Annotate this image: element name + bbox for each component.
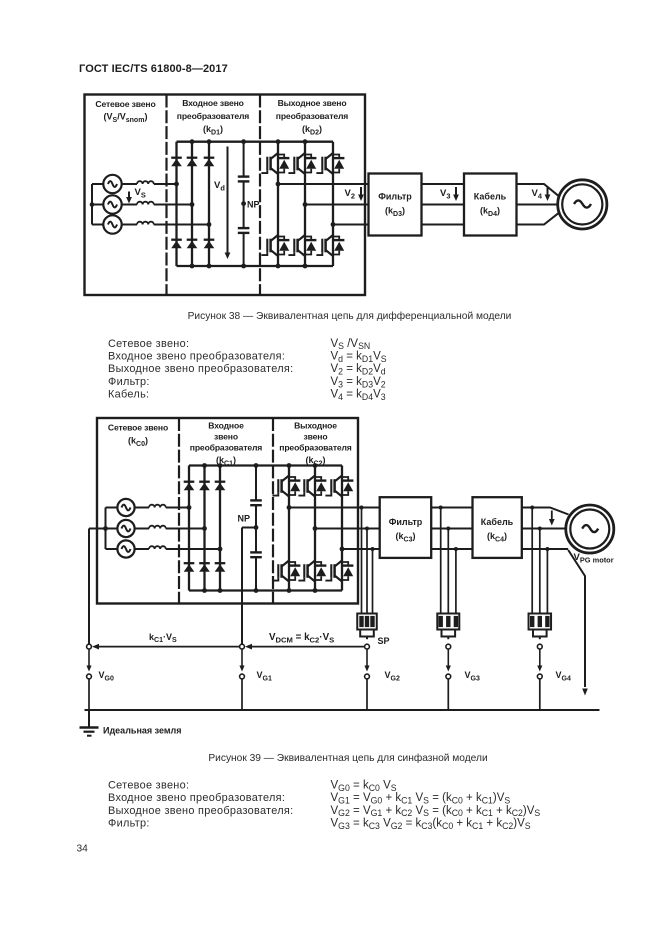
node upper terminal at V_G1 [240, 644, 245, 649]
legend fig38 row: Кабель: [108, 389, 386, 402]
svg-text:Vd = kD1VS: Vd = kD1VS [331, 351, 387, 364]
wire phase 2 cable to motor fig38 [517, 204, 559, 206]
wire phase 1 cable to motor fig39 [522, 508, 569, 515]
svg-text:NP: NP [238, 514, 251, 524]
svg-text:SP: SP [378, 636, 390, 646]
svg-text:преобразователя: преобразователя [276, 111, 349, 121]
wire output phase 2 inverter to filter fig39 [315, 528, 380, 530]
svg-text:Выходное звено преобразователя: Выходное звено преобразователя: [108, 805, 293, 817]
wire phase 3 filter to cable fig38 [422, 224, 465, 226]
node lower terminal at V_G1 [240, 674, 245, 679]
svg-text:(kC4): (kC4) [487, 531, 507, 543]
svg-text:VG0 = kC0 VS: VG0 = kC0 VS [331, 779, 397, 792]
legend fig39 row: Входное звено преобразователя: [108, 792, 510, 805]
wire phase 3 cable to motor fig39 [522, 548, 568, 550]
svg-text:Входное звено преобразователя:: Входное звено преобразователя: [108, 792, 285, 804]
wire V_G1 node to earth rail [241, 679, 243, 710]
svg-text:Кабель:: Кабель: [108, 389, 149, 401]
svg-text:Входное звено преобразователя:: Входное звено преобразователя: [108, 351, 285, 363]
label V_G2 [385, 670, 400, 682]
stray capacitance block filter output [437, 614, 459, 640]
inductor phase 1 fig38 [137, 181, 154, 184]
label V_G3 [465, 670, 480, 682]
figure 39 dashed separator mains/input section [178, 418, 180, 604]
svg-text:ГОСТ IEC/TS 61800-8—2017: ГОСТ IEC/TS 61800-8—2017 [79, 63, 228, 75]
IGBT lower leg 3 fig38 [316, 235, 344, 256]
label V_G0 [99, 670, 114, 682]
legend fig38 row: Выходное звено преобразователя: [108, 363, 386, 376]
voltage arrow V_2 fig38 [345, 187, 364, 201]
inverter leg 2 wire fig38 [304, 142, 306, 266]
inductor phase 3 fig39 [149, 546, 166, 549]
svg-text:Входное: Входное [208, 421, 244, 431]
wire dc-link capacitor branch fig38 [243, 142, 245, 266]
node upper terminal at V_G3 [446, 644, 451, 649]
label input converter section header (k_D1) [177, 98, 250, 136]
legend fig39 row: Выходное звено преобразователя: [108, 805, 540, 818]
svg-text:Фильтр: Фильтр [389, 517, 423, 527]
ideal earth rail fig39 [85, 709, 600, 711]
rectifier leg 2 wire fig38 [191, 142, 193, 266]
diode lower leg 2 fig39 [199, 563, 210, 572]
svg-text:34: 34 [77, 844, 89, 855]
label node SP [378, 636, 390, 646]
svg-text:Выходное звено преобразователя: Выходное звено преобразователя: [108, 363, 293, 375]
node lower terminal at V_G4 [537, 674, 542, 679]
wire phase 2 source to rectifier fig38 [121, 204, 192, 206]
voltage arrow V_G4 [537, 650, 542, 672]
filter block (k_D3) fig38 [369, 174, 422, 236]
svg-text:преобразователя: преобразователя [190, 443, 263, 453]
voltage arrow V_DCM = k_C2*V_S between ground nodes [245, 632, 365, 650]
diode upper leg 2 fig38 [187, 158, 198, 167]
voltage arrow V_G0 [86, 650, 91, 672]
svg-text:Фильтр:: Фильтр: [108, 376, 150, 388]
wire stray-capacitance bundle cable output [530, 506, 549, 614]
dc bus positive fig39 [189, 464, 342, 466]
ac source G2 fig38 [103, 195, 121, 213]
voltage arrow V_4 fig38 [532, 187, 551, 201]
ac source G2 fig39 [117, 520, 134, 537]
motor M fig38 [558, 180, 607, 229]
label mains section header (V_S/V_snom) [95, 99, 155, 124]
cable block (k_D4) fig38 [464, 174, 517, 236]
svg-text:(kD1): (kD1) [203, 124, 223, 136]
voltage arrow V_G2 [364, 650, 369, 672]
voltage arrow V_G3 [446, 650, 451, 672]
wire V_G0 node to earth rail [88, 679, 90, 710]
diode upper leg 3 fig39 [215, 482, 226, 491]
stray capacitance block cable output [529, 614, 552, 640]
diode upper leg 3 fig38 [204, 158, 215, 167]
wire phase 3 source to rectifier fig38 [121, 224, 209, 226]
svg-text:Сетевое звено: Сетевое звено [95, 99, 155, 109]
legend fig38 row: Фильтр: [108, 376, 386, 389]
wire output phase 3 inverter to filter fig38 [333, 224, 369, 226]
svg-text:VS /VSN: VS /VSN [331, 338, 371, 351]
IGBT upper leg 3 fig38 [316, 153, 344, 174]
svg-text:VG2 = VG1 + kC2 VS = (kC0 + kC: VG2 = VG1 + kC2 VS = (kC0 + kC1 + kC2)VS [331, 805, 541, 818]
wire phase 3 cable to motor fig38 [517, 213, 559, 224]
ac source G1 fig38 [103, 175, 121, 193]
wire source left rail fig38 [90, 184, 104, 225]
page number 34 [77, 844, 89, 855]
label output converter section header (k_D2) [276, 98, 349, 136]
wire V_G4 node to earth rail [539, 679, 541, 710]
svg-text:Выходное: Выходное [294, 421, 337, 431]
wire dc-link capacitor branch fig39 [255, 466, 257, 591]
wire ground reference feed from source fig39 [89, 526, 108, 644]
voltage arrow V_G1 [239, 650, 244, 672]
IGBT upper leg 1 fig38 [261, 153, 289, 174]
filter block (k_C3) fig39 [380, 497, 432, 558]
diode lower leg 3 fig39 [215, 563, 226, 572]
stray capacitance block converter output [357, 614, 377, 640]
svg-text:(VS/Vsnom): (VS/Vsnom) [104, 112, 148, 124]
motor M fig39 [566, 505, 614, 553]
diode lower leg 3 fig38 [204, 240, 215, 249]
inverter leg 2 wire fig39 [314, 466, 316, 591]
svg-text:(kD2): (kD2) [302, 124, 322, 136]
dc bus positive fig38 [177, 141, 334, 143]
svg-text:Фильтр:: Фильтр: [108, 818, 150, 830]
svg-text:Идеальная земля: Идеальная земля [103, 726, 182, 736]
wire phase 2 cable to motor fig39 [522, 528, 566, 530]
wire V_G3 node to earth rail [447, 679, 449, 710]
diode upper leg 1 fig38 [171, 158, 182, 167]
wire phase 1 filter to cable fig39 [431, 507, 472, 509]
svg-text:Выходное звено: Выходное звено [278, 98, 347, 108]
wire phase 3 source to rectifier fig39 [134, 548, 220, 550]
junction dots rectifier fig38 [174, 139, 211, 268]
svg-text:VG1: VG1 [257, 670, 272, 682]
wire output phase 1 inverter to filter fig38 [278, 183, 369, 185]
diode lower leg 1 fig39 [184, 563, 195, 572]
svg-text:VG3: VG3 [465, 670, 480, 682]
capacitor C_dc upper fig39 [250, 500, 262, 505]
svg-text:(kD3): (kD3) [385, 206, 405, 218]
IGBT upper leg 3 fig39 [325, 476, 353, 497]
ac source G3 fig38 [103, 215, 121, 233]
figure 39 caption [208, 752, 487, 764]
capacitor C_dc upper fig38 [238, 177, 250, 182]
label V_PG motor fig39 [574, 552, 614, 564]
svg-text:Рисунок 38 — Эквивалентная цеп: Рисунок 38 — Эквивалентная цепь для дифф… [188, 310, 512, 322]
figure 38 caption [188, 310, 512, 322]
svg-text:Входное звено: Входное звено [182, 98, 244, 108]
svg-text:Кабель: Кабель [481, 517, 514, 527]
wire source left rail fig39 [106, 508, 119, 550]
svg-text:V3 = kD3V2: V3 = kD3V2 [331, 376, 386, 389]
svg-text:(kC3): (kC3) [396, 531, 416, 543]
legend fig38 row: Входное звено преобразователя: [108, 351, 387, 364]
wire phase 1 filter to cable fig38 [422, 183, 465, 185]
node lower terminal at V_G2 [365, 674, 370, 679]
IGBT lower leg 3 fig39 [325, 561, 353, 582]
inductor phase 2 fig39 [149, 526, 166, 529]
label mains section header (k_C0) fig39 [108, 423, 168, 448]
svg-text:Рисунок 39 — Эквивалентная цеп: Рисунок 39 — Эквивалентная цепь для синф… [208, 752, 487, 764]
svg-text:VG0: VG0 [99, 670, 114, 682]
wire phase 2 filter to cable fig38 [422, 204, 465, 206]
svg-text:VG2: VG2 [385, 670, 400, 682]
diode upper leg 2 fig39 [199, 482, 210, 491]
node upper terminal at V_G2 [365, 644, 370, 649]
wire phase 1 source to rectifier fig38 [121, 183, 177, 185]
capacitor C_dc lower fig39 [250, 552, 262, 557]
legend fig38 row: Сетевое звено: [108, 338, 370, 351]
inverter leg 3 wire fig38 [332, 142, 334, 266]
wire motor frame to ground arrow fig39 [568, 550, 588, 696]
wire phase 1 source to rectifier fig39 [134, 507, 189, 509]
label output converter section header (k_C2) fig39 [279, 421, 352, 468]
label V_G1 [257, 670, 272, 682]
svg-text:VG1 = VG0 + kC1 VS = (kC0 + kC: VG1 = VG0 + kC1 VS = (kC0 + kC1)VS [331, 792, 511, 805]
node upper terminal at V_G4 [537, 644, 542, 649]
diode lower leg 1 fig38 [171, 240, 182, 249]
label input converter section header (k_C1) fig39 [190, 421, 263, 468]
svg-text:V3: V3 [440, 188, 450, 200]
figure 38 dashed separator mains/input section [165, 95, 167, 296]
wire stray-capacitance bundle converter output [360, 506, 375, 614]
wire V_G2 node to earth rail [366, 679, 368, 710]
svg-text:VG4: VG4 [556, 670, 571, 682]
node lower terminal at V_G0 [87, 674, 92, 679]
voltage arrow V_S fig38 [126, 187, 146, 204]
inductor phase 1 fig39 [149, 505, 166, 508]
figure 38 dashed separator input/output section [259, 95, 261, 296]
svg-text:Фильтр: Фильтр [378, 192, 412, 202]
rectifier leg 1 wire fig38 [175, 142, 177, 266]
rectifier leg 2 wire fig39 [203, 466, 205, 591]
ac source G3 fig39 [117, 540, 134, 557]
node NP fig38 [241, 139, 259, 268]
wire phase 2 filter to cable fig39 [431, 528, 472, 530]
svg-text:kC1·VS: kC1·VS [149, 632, 177, 644]
junction dots inverter fig39 [287, 463, 345, 593]
svg-text:(kC0): (kC0) [128, 436, 148, 448]
svg-text:звено: звено [304, 432, 328, 442]
figure 39 outer enclosure box [97, 418, 358, 604]
document header GOST IEC/TS 61800-8-2017 [79, 63, 228, 75]
figure 38 outer enclosure box [85, 95, 366, 296]
node lower terminal at V_G3 [446, 674, 451, 679]
svg-text:Кабель: Кабель [474, 192, 507, 202]
legend fig39 row: Сетевое звено: [108, 779, 397, 792]
legend fig39 row: Фильтр: [108, 818, 531, 831]
diode lower leg 2 fig38 [187, 240, 198, 249]
wire phase 1 cable to motor fig38 [517, 184, 559, 196]
inverter leg 1 wire fig38 [277, 142, 279, 266]
svg-text:Сетевое звено:: Сетевое звено: [108, 338, 189, 350]
svg-text:V2: V2 [345, 188, 355, 200]
IGBT lower leg 2 fig38 [288, 235, 316, 256]
label V_G4 [556, 670, 571, 682]
svg-text:V4: V4 [532, 188, 543, 200]
wire phase 3 filter to cable fig39 [431, 548, 472, 550]
IGBT lower leg 2 fig39 [298, 561, 326, 582]
wire NP tap to ground node fig39 [242, 528, 256, 645]
wire phase 2 source to rectifier fig39 [134, 528, 205, 530]
dc bus negative fig38 [177, 265, 334, 267]
wire output phase 2 inverter to filter fig38 [305, 204, 369, 206]
svg-text:преобразователя: преобразователя [177, 111, 250, 121]
junction dots inverter fig38 [276, 139, 336, 268]
IGBT lower leg 1 fig38 [261, 235, 289, 256]
junction dots rectifier fig39 [187, 463, 223, 593]
IGBT upper leg 2 fig39 [298, 476, 326, 497]
voltage arrow V_3 fig38 [440, 187, 459, 201]
svg-text:V4 = kD4V3: V4 = kD4V3 [331, 389, 386, 402]
voltage arrow at motor input fig39 [549, 511, 555, 526]
wire output phase 3 inverter to filter fig39 [342, 548, 380, 550]
rectifier leg 1 wire fig39 [188, 466, 190, 591]
inverter leg 1 wire fig39 [288, 466, 290, 591]
IGBT upper leg 2 fig38 [288, 153, 316, 174]
node upper terminal at V_G0 [87, 644, 92, 649]
svg-text:VS: VS [135, 187, 146, 199]
voltage arrow k_C1*V_S between ground nodes [92, 632, 240, 650]
svg-text:Сетевое звено: Сетевое звено [108, 423, 168, 433]
rectifier leg 3 wire fig39 [219, 466, 221, 591]
svg-text:VG3 = kC3 VG2 = kC3(kC0 + kC1: VG3 = kC3 VG2 = kC3(kC0 + kC1 + kC2)VS [331, 818, 531, 831]
wire output phase 1 inverter to filter fig39 [289, 507, 380, 509]
label ideal earth [103, 726, 182, 736]
svg-text:Vd: Vd [214, 180, 225, 192]
inductor phase 2 fig38 [137, 202, 154, 205]
svg-text:звено: звено [214, 432, 238, 442]
IGBT upper leg 1 fig39 [272, 476, 300, 497]
dc bus negative fig39 [189, 589, 342, 591]
wire stray-capacitance bundle filter output [439, 506, 458, 614]
svg-text:(kD4): (kD4) [480, 206, 500, 218]
capacitor C_dc lower fig38 [238, 228, 250, 233]
inverter leg 3 wire fig39 [341, 466, 343, 591]
svg-text:NP: NP [247, 200, 260, 210]
ac source G1 fig39 [117, 499, 134, 516]
svg-text:VDCM = kC2·VS: VDCM = kC2·VS [269, 632, 334, 644]
rectifier leg 3 wire fig38 [208, 142, 210, 266]
svg-text:V2 = kD2Vd: V2 = kD2Vd [331, 363, 386, 376]
figure 39 dashed separator input/output section [272, 418, 274, 604]
earth ground symbol [80, 710, 99, 736]
node NP fig39 [238, 463, 259, 593]
cable block (k_C4) fig39 [473, 497, 522, 558]
svg-text:Сетевое звено:: Сетевое звено: [108, 779, 189, 791]
svg-text:преобразователя: преобразователя [279, 443, 352, 453]
IGBT lower leg 1 fig39 [272, 561, 300, 582]
voltage arrow V_d fig38 [214, 147, 230, 260]
inductor phase 3 fig38 [137, 222, 154, 225]
diode upper leg 1 fig39 [184, 482, 195, 491]
